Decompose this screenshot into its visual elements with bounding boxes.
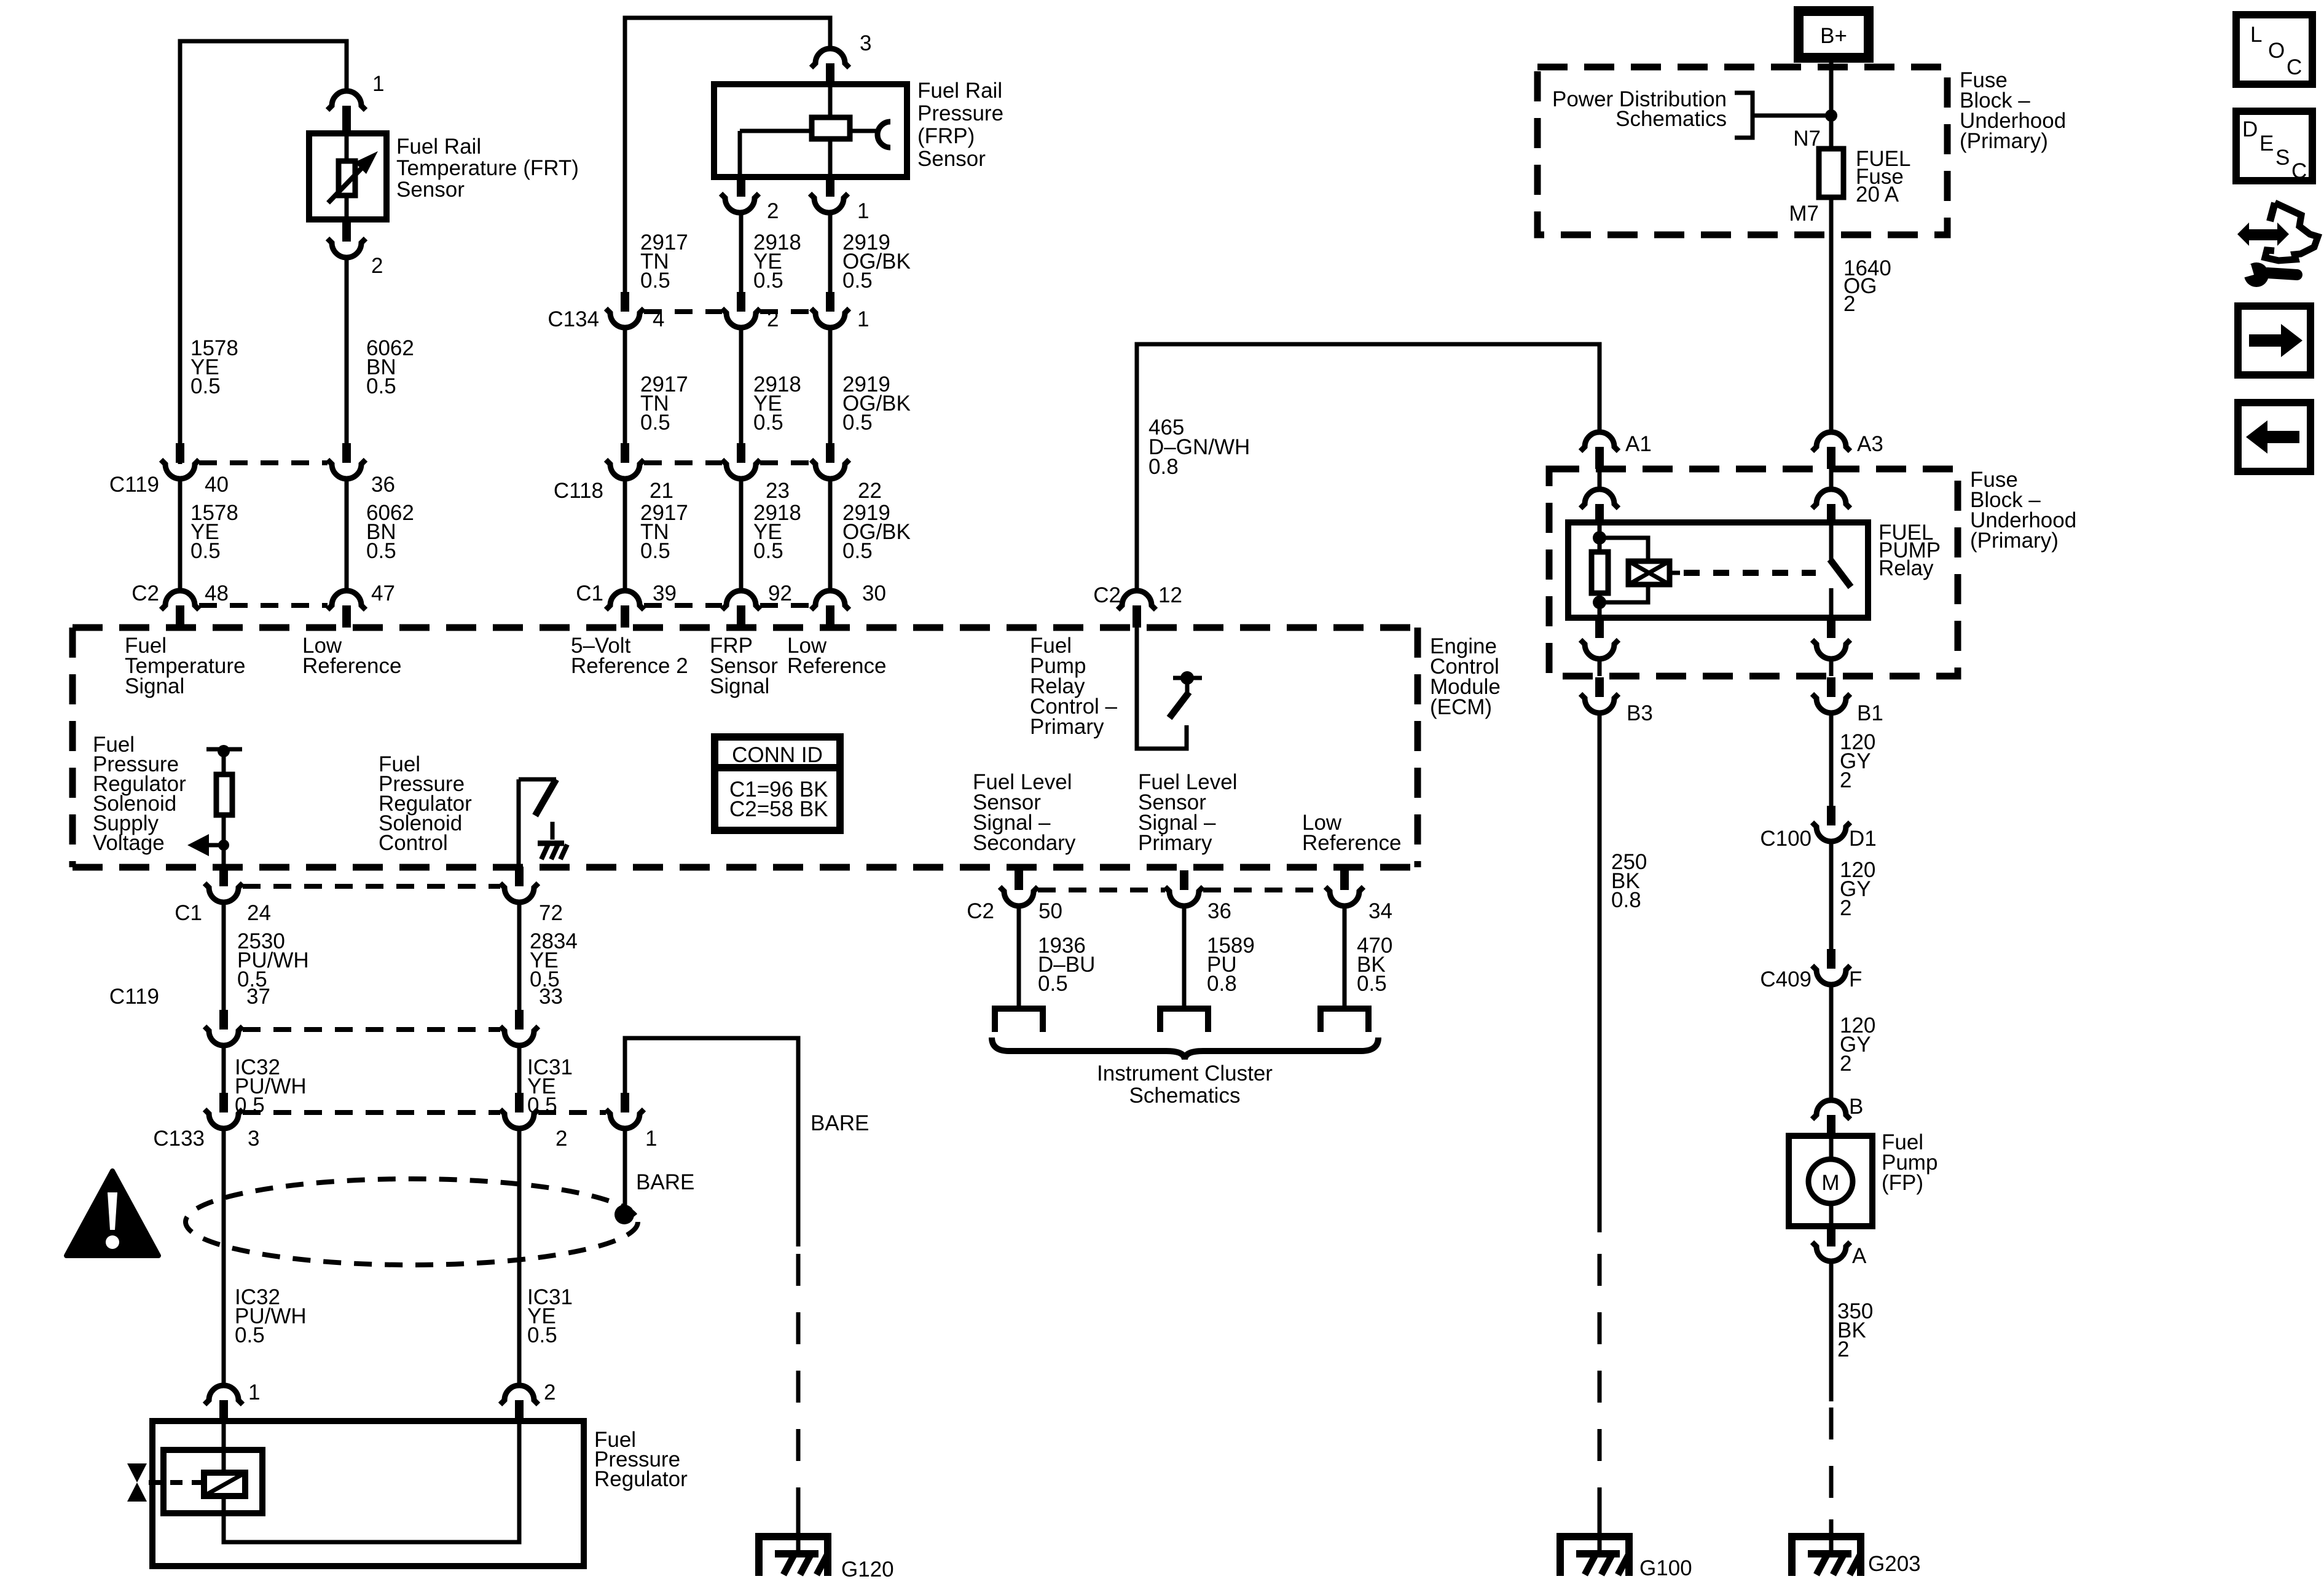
label 1640 OG 2 xyxy=(1843,256,1891,316)
svg-text:2: 2 xyxy=(767,199,779,223)
harness ellipse xyxy=(186,1179,638,1265)
svg-text:C1: C1 xyxy=(175,901,202,925)
vehicle service icon xyxy=(2237,203,2318,287)
svg-text:D1: D1 xyxy=(1849,827,1877,851)
svg-text:Fuel Rail: Fuel Rail xyxy=(396,135,481,159)
svg-text:G203: G203 xyxy=(1868,1552,1921,1576)
svg-text:Fuel Rail: Fuel Rail xyxy=(917,79,1002,103)
connector C134 pin 1 xyxy=(811,292,849,328)
ground G100 xyxy=(1560,1519,1692,1579)
wire 2917 seg1 label xyxy=(640,230,688,293)
label C119 lower row xyxy=(109,985,563,1009)
connector C2 pin 34 xyxy=(1325,870,1364,906)
wire 2530 + label xyxy=(222,902,226,1010)
wire 1936 + label xyxy=(1017,906,1021,1006)
wire labels block2 xyxy=(640,372,688,435)
node Low Reference xyxy=(302,634,401,678)
svg-text:Reference: Reference xyxy=(787,654,886,678)
wire BARE pin1 loop to ground xyxy=(625,1038,798,1234)
svg-text:0.5: 0.5 xyxy=(753,539,783,563)
connector C2 pin 36 xyxy=(1165,870,1203,906)
wire 470 + label xyxy=(1343,906,1347,1006)
wire A3 inside xyxy=(1829,469,1834,489)
svg-text:C409: C409 xyxy=(1760,967,1812,991)
wire 350 BK + label xyxy=(1829,1261,1834,1401)
svg-text:C119: C119 xyxy=(109,473,159,497)
svg-text:O: O xyxy=(2268,39,2285,63)
fuse block underhood top dashed box xyxy=(1537,67,1947,235)
label Fuel Pressure Regulator xyxy=(594,1428,688,1491)
connector FRP pin 3 xyxy=(811,31,871,84)
node Fuel Temperature Signal xyxy=(125,634,245,698)
svg-text:Schematics: Schematics xyxy=(1615,107,1727,131)
node Low Reference 2 xyxy=(787,634,886,678)
wire 1578 seg2 xyxy=(178,479,183,591)
svg-text:C2: C2 xyxy=(1093,583,1121,607)
wire BARE pin1 to splice xyxy=(623,1128,627,1214)
wire 250 BK xyxy=(1598,713,1602,1232)
internal control driver symbol xyxy=(519,779,567,867)
svg-text:30: 30 xyxy=(862,581,886,605)
label fuse block top xyxy=(1960,68,2066,153)
svg-text:0.5: 0.5 xyxy=(1038,972,1068,996)
svg-text:4: 4 xyxy=(653,307,664,331)
svg-text:C1: C1 xyxy=(576,581,603,605)
Fuel Pressure Regulator box xyxy=(152,1421,584,1566)
svg-text:37: 37 xyxy=(246,985,270,1009)
svg-text:2: 2 xyxy=(555,1127,567,1151)
wires C134 to C118 xyxy=(623,328,627,444)
svg-text:(FP): (FP) xyxy=(1882,1171,1923,1195)
svg-text:36: 36 xyxy=(1207,899,1231,923)
svg-text:Reference 2: Reference 2 xyxy=(571,654,688,678)
stub connector 3 xyxy=(1321,1009,1368,1032)
svg-text:C: C xyxy=(2291,159,2307,183)
node Fuel Pressure Regulator Solenoid Control xyxy=(379,752,472,855)
wire 120 GY seg3 + label xyxy=(1829,985,1834,1099)
svg-text:Primary: Primary xyxy=(1030,715,1104,739)
svg-text:0.5: 0.5 xyxy=(640,539,670,563)
ground G203 xyxy=(1792,1519,1921,1576)
wire bracket to junction xyxy=(1753,114,1831,118)
svg-text:0.8: 0.8 xyxy=(1148,455,1179,479)
svg-text:Regulator: Regulator xyxy=(594,1467,688,1491)
wire IC32 seg1 + label xyxy=(222,1045,226,1093)
svg-text:D: D xyxy=(2242,117,2258,141)
svg-text:M: M xyxy=(1821,1171,1839,1195)
wire 120 GY seg1 + label xyxy=(1829,713,1834,806)
connector C2 pin 47 (ECM) xyxy=(328,591,366,628)
brace xyxy=(992,1038,1378,1060)
connector FRP pin 2 xyxy=(721,177,779,223)
svg-text:50: 50 xyxy=(1038,899,1062,923)
connector C133 pin 2 xyxy=(500,1093,538,1128)
wire 465 D-GN/WH xyxy=(1137,344,1600,591)
connector relay coil top xyxy=(1580,489,1619,522)
svg-text:1: 1 xyxy=(645,1127,657,1151)
LOC icon box xyxy=(2236,15,2312,84)
svg-text:23: 23 xyxy=(766,479,790,503)
C119 lower row dashes xyxy=(243,1027,500,1032)
svg-text:20 A: 20 A xyxy=(1856,183,1899,207)
wire fuse down to A3 xyxy=(1829,197,1834,433)
connector C2 pin 12 (ECM) xyxy=(1093,583,1182,628)
wire A1 inside xyxy=(1598,469,1602,489)
svg-text:0.5: 0.5 xyxy=(190,539,221,563)
wire IC31 seg2 + label xyxy=(517,1128,522,1385)
wire FRT top loop xyxy=(180,41,347,464)
label ECM xyxy=(1430,634,1501,719)
svg-text:Temperature (FRT): Temperature (FRT) xyxy=(396,156,579,180)
svg-text:2: 2 xyxy=(1843,292,1855,316)
svg-text:M7: M7 xyxy=(1789,202,1819,226)
svg-text:Pressure: Pressure xyxy=(917,101,1003,125)
connector C133 pin 1 xyxy=(606,1093,644,1128)
svg-text:0.5: 0.5 xyxy=(527,1323,557,1347)
ECM dashed box xyxy=(73,624,1418,631)
svg-text:1: 1 xyxy=(248,1380,260,1404)
svg-text:2: 2 xyxy=(1840,768,1851,792)
svg-text:2: 2 xyxy=(1840,1052,1851,1076)
svg-text:(FRP): (FRP) xyxy=(917,124,975,148)
connector C133 pin 3 xyxy=(205,1093,243,1128)
connector C2 pin 48 (ECM) xyxy=(161,591,199,628)
C1 lower row dashes xyxy=(243,884,500,889)
connector C2 pin 50 xyxy=(1000,870,1038,906)
svg-text:0.5: 0.5 xyxy=(753,269,783,293)
wire B+ down xyxy=(1829,58,1834,149)
node Fuel Pressure Regulator Solenoid Supply Voltage xyxy=(93,733,186,855)
svg-text:0.8: 0.8 xyxy=(1207,972,1237,996)
connector C1 pin 72 xyxy=(500,867,538,902)
wire 120 GY seg2 + label xyxy=(1829,841,1834,950)
svg-text:2: 2 xyxy=(1840,896,1851,920)
FRP sensor xyxy=(714,84,907,177)
CONN ID table xyxy=(715,737,840,830)
svg-text:S: S xyxy=(2275,146,2290,170)
warning triangle xyxy=(66,1171,159,1256)
relay actuation dashes xyxy=(1684,570,1816,576)
connector C1 pin 30 (ECM) xyxy=(811,591,849,628)
svg-text:72: 72 xyxy=(539,901,563,925)
label 465 wire xyxy=(1148,415,1250,479)
svg-text:E: E xyxy=(2259,132,2274,156)
wire IC32 seg2 + label xyxy=(222,1128,226,1385)
svg-text:Sensor: Sensor xyxy=(917,147,986,171)
svg-text:24: 24 xyxy=(247,901,271,925)
svg-text:Instrument Cluster: Instrument Cluster xyxy=(1097,1061,1273,1085)
C1 row dashes xyxy=(644,603,722,608)
wire to G120 dashed xyxy=(796,1234,801,1246)
label cluster C2 row xyxy=(967,899,1392,923)
DESC icon box xyxy=(2236,111,2312,183)
connector FRT pin 2 xyxy=(328,222,383,278)
node Low Reference cluster xyxy=(1302,811,1401,855)
relay winding (box-X) xyxy=(1600,538,1680,602)
svg-text:CONN ID: CONN ID xyxy=(732,743,823,767)
label FRP sensor xyxy=(917,79,1003,171)
bracket xyxy=(1735,93,1753,138)
cluster C2 row dashes xyxy=(1038,888,1165,892)
fuse block underhood 2 dashed box xyxy=(1549,469,1958,676)
wire 6062 seg2 xyxy=(345,479,349,591)
connector A1 xyxy=(1580,432,1652,469)
connector B fuel pump xyxy=(1812,1095,1863,1136)
svg-text:Sensor: Sensor xyxy=(396,178,465,202)
label N7 xyxy=(1793,127,1821,151)
svg-text:G100: G100 xyxy=(1639,1556,1692,1579)
node FRP Sensor Signal xyxy=(710,634,778,698)
wire 1589 + label xyxy=(1182,906,1187,1006)
svg-text:(Primary): (Primary) xyxy=(1970,529,2059,553)
svg-text:C2=58 BK: C2=58 BK xyxy=(729,797,828,821)
C118 row dashes xyxy=(644,460,722,465)
label BARE right xyxy=(811,1111,869,1135)
connector regulator pin 1 xyxy=(205,1380,260,1421)
svg-text:0.5: 0.5 xyxy=(190,374,221,398)
label FUEL PUMP Relay xyxy=(1878,521,1941,580)
svg-text:C2: C2 xyxy=(967,899,994,923)
svg-text:2: 2 xyxy=(544,1380,555,1404)
svg-text:B: B xyxy=(1849,1095,1863,1119)
svg-text:21: 21 xyxy=(650,479,673,503)
battery B+ terminal xyxy=(1799,11,1869,58)
svg-text:G120: G120 xyxy=(841,1557,894,1579)
fuse FUEL 20A xyxy=(1819,147,1910,207)
svg-text:Control: Control xyxy=(379,831,448,855)
C2 row dashes xyxy=(199,603,328,608)
svg-text:C119: C119 xyxy=(109,985,159,1009)
node Fuel Level Sensor Signal Primary xyxy=(1138,770,1237,855)
svg-text:Secondary: Secondary xyxy=(973,831,1076,855)
svg-text:B+: B+ xyxy=(1820,24,1847,48)
svg-text:Relay: Relay xyxy=(1878,556,1934,580)
label fuse block 2 xyxy=(1970,468,2076,553)
internal supply branch with resistor xyxy=(206,745,242,867)
svg-text:C2: C2 xyxy=(132,581,159,605)
svg-text:47: 47 xyxy=(371,581,395,605)
connector C1 pin 92 (ECM) xyxy=(722,591,760,628)
connector C118 pin 22 xyxy=(811,443,849,479)
C119 row dashes xyxy=(199,460,328,465)
connector C1 pin 39 (ECM) xyxy=(606,591,644,628)
svg-text:3: 3 xyxy=(248,1127,259,1151)
label M7 xyxy=(1789,202,1819,226)
stub connector 1 xyxy=(995,1009,1043,1032)
internal relay control switch xyxy=(1137,628,1202,749)
svg-text:0.5: 0.5 xyxy=(366,539,396,563)
svg-text:1: 1 xyxy=(372,72,384,96)
splice dot on harness xyxy=(614,1205,634,1224)
svg-text:Reference: Reference xyxy=(302,654,401,678)
stub connector 2 xyxy=(1160,1009,1208,1032)
wire label 6062 BN 0.5 (upper) xyxy=(366,336,414,398)
connector C119 pin 37 xyxy=(205,1010,243,1045)
connector relay coil bottom xyxy=(1580,619,1619,676)
svg-text:0.5: 0.5 xyxy=(366,374,396,398)
wire label 6062 BN 0.5 (lower) xyxy=(366,501,414,563)
wire label 1578 YE 0.5 (lower) xyxy=(190,501,238,563)
label FRT sensor xyxy=(396,135,579,202)
label C134 row xyxy=(548,307,869,331)
svg-text:34: 34 xyxy=(1368,899,1392,923)
svg-text:C118: C118 xyxy=(554,479,603,503)
FRT sensor (thermistor) xyxy=(309,133,387,219)
node Fuel Pump Relay Control Primary xyxy=(1030,634,1118,739)
svg-text:C: C xyxy=(2287,55,2302,79)
wire 350 dashed to G203 xyxy=(1829,1408,1834,1519)
C133 row dashes xyxy=(243,1110,500,1115)
label C119 row xyxy=(109,473,395,497)
svg-text:Voltage: Voltage xyxy=(93,831,165,855)
svg-text:C100: C100 xyxy=(1760,827,1812,851)
connector C119 pin 36 xyxy=(328,443,366,479)
connector C100 D1 xyxy=(1760,806,1876,851)
junction dot xyxy=(1825,109,1837,122)
connector regulator pin 2 xyxy=(500,1380,555,1421)
FUEL PUMP relay box xyxy=(1568,522,1868,618)
svg-text:B1: B1 xyxy=(1857,701,1883,725)
svg-text:0.5: 0.5 xyxy=(1357,972,1387,996)
svg-text:C134: C134 xyxy=(548,307,599,331)
svg-text:0.5: 0.5 xyxy=(640,411,670,435)
svg-text:0.5: 0.5 xyxy=(640,269,670,293)
svg-text:1: 1 xyxy=(857,199,869,223)
svg-text:2: 2 xyxy=(371,254,383,278)
svg-text:(Primary): (Primary) xyxy=(1960,129,2048,153)
label Instrument Cluster Schematics xyxy=(1097,1061,1273,1108)
connector A fuel pump xyxy=(1812,1227,1867,1268)
svg-text:39: 39 xyxy=(653,581,677,605)
connector B1 xyxy=(1812,677,1883,725)
svg-text:36: 36 xyxy=(371,473,395,497)
node 5-Volt Reference 2 xyxy=(571,634,688,678)
connector FRP pin 1 xyxy=(810,177,869,223)
svg-text:(ECM): (ECM) xyxy=(1430,695,1492,719)
wire label 1578 YE 0.5 (upper) xyxy=(190,336,238,398)
wire 2918 seg1 + label xyxy=(739,213,744,293)
svg-text:L: L xyxy=(2250,23,2262,47)
label BARE left xyxy=(636,1170,694,1194)
svg-text:Signal: Signal xyxy=(710,674,769,698)
svg-text:Primary: Primary xyxy=(1138,831,1212,855)
svg-text:2: 2 xyxy=(767,307,779,331)
connector C1 pin 24 xyxy=(205,867,243,902)
arrow Supply Voltage xyxy=(187,834,229,856)
svg-text:1: 1 xyxy=(857,307,869,331)
svg-text:48: 48 xyxy=(205,581,229,605)
wire 2919 seg1 + label xyxy=(828,213,833,293)
connector C118 pin 23 xyxy=(722,443,760,479)
label C118 row xyxy=(554,479,882,503)
connector B3 xyxy=(1580,677,1653,725)
svg-text:0.5: 0.5 xyxy=(842,269,873,293)
ground G120 xyxy=(759,1519,894,1579)
svg-text:Reference: Reference xyxy=(1302,831,1401,855)
svg-text:F: F xyxy=(1849,967,1862,991)
wire labels block3 xyxy=(640,501,688,563)
valve symbol xyxy=(127,1463,204,1502)
svg-text:0.5: 0.5 xyxy=(842,539,873,563)
label C1 lower row xyxy=(175,901,563,925)
back arrow icon box xyxy=(2238,403,2310,471)
svg-text:0.8: 0.8 xyxy=(1611,888,1641,912)
svg-text:Signal: Signal xyxy=(125,674,184,698)
connector relay switch top xyxy=(1812,489,1850,522)
svg-text:22: 22 xyxy=(858,479,882,503)
svg-text:B3: B3 xyxy=(1627,701,1653,725)
connector A3 xyxy=(1812,432,1883,469)
svg-text:A: A xyxy=(1852,1244,1867,1268)
svg-text:BARE: BARE xyxy=(636,1170,694,1194)
C134 row dashes xyxy=(644,309,722,314)
svg-text:92: 92 xyxy=(768,581,792,605)
wire 250 dashed to G100 xyxy=(1598,1254,1602,1519)
connector C134 pin 2 xyxy=(722,292,760,328)
relay switch xyxy=(1830,522,1851,618)
label Fuel Pump FP xyxy=(1882,1130,1937,1195)
connector C134 pin 4 xyxy=(606,292,644,328)
label C2 row xyxy=(132,581,395,605)
connector FRT pin 1 xyxy=(328,72,384,133)
svg-text:0.5: 0.5 xyxy=(235,1323,265,1347)
svg-text:3: 3 xyxy=(860,31,871,55)
relay coil branch xyxy=(1592,522,1608,618)
svg-text:A3: A3 xyxy=(1857,432,1883,456)
svg-text:12: 12 xyxy=(1158,583,1182,607)
wires C118 to C1 xyxy=(623,479,627,591)
svg-text:2: 2 xyxy=(1837,1337,1849,1361)
svg-text:A1: A1 xyxy=(1625,432,1652,456)
connector C119 pin 33 xyxy=(500,1010,538,1045)
connector C118 pin 21 xyxy=(606,443,644,479)
svg-text:BARE: BARE xyxy=(811,1111,869,1135)
label Power Distribution Schematics xyxy=(1552,87,1727,131)
wire FRP top loop xyxy=(625,18,830,293)
connector relay switch bottom xyxy=(1812,619,1850,676)
node Fuel Level Sensor Signal Secondary xyxy=(973,770,1076,855)
wire IC31 seg1 + label xyxy=(517,1045,522,1093)
wire FRT pin2 down xyxy=(345,258,349,444)
wire 2834 + label xyxy=(517,902,522,1010)
svg-text:0.5: 0.5 xyxy=(842,411,873,435)
label C133 row xyxy=(153,1127,657,1151)
label C1 row xyxy=(576,581,886,605)
connector C119 pin 40 xyxy=(161,443,199,479)
svg-text:C133: C133 xyxy=(153,1127,205,1151)
forward arrow icon box xyxy=(2238,306,2310,375)
svg-text:40: 40 xyxy=(205,473,229,497)
svg-text:33: 33 xyxy=(539,985,563,1009)
fuel pump FP motor xyxy=(1789,1136,1872,1226)
connector C409 F xyxy=(1760,949,1862,991)
svg-text:Schematics: Schematics xyxy=(1129,1084,1241,1108)
svg-text:0.5: 0.5 xyxy=(753,411,783,435)
